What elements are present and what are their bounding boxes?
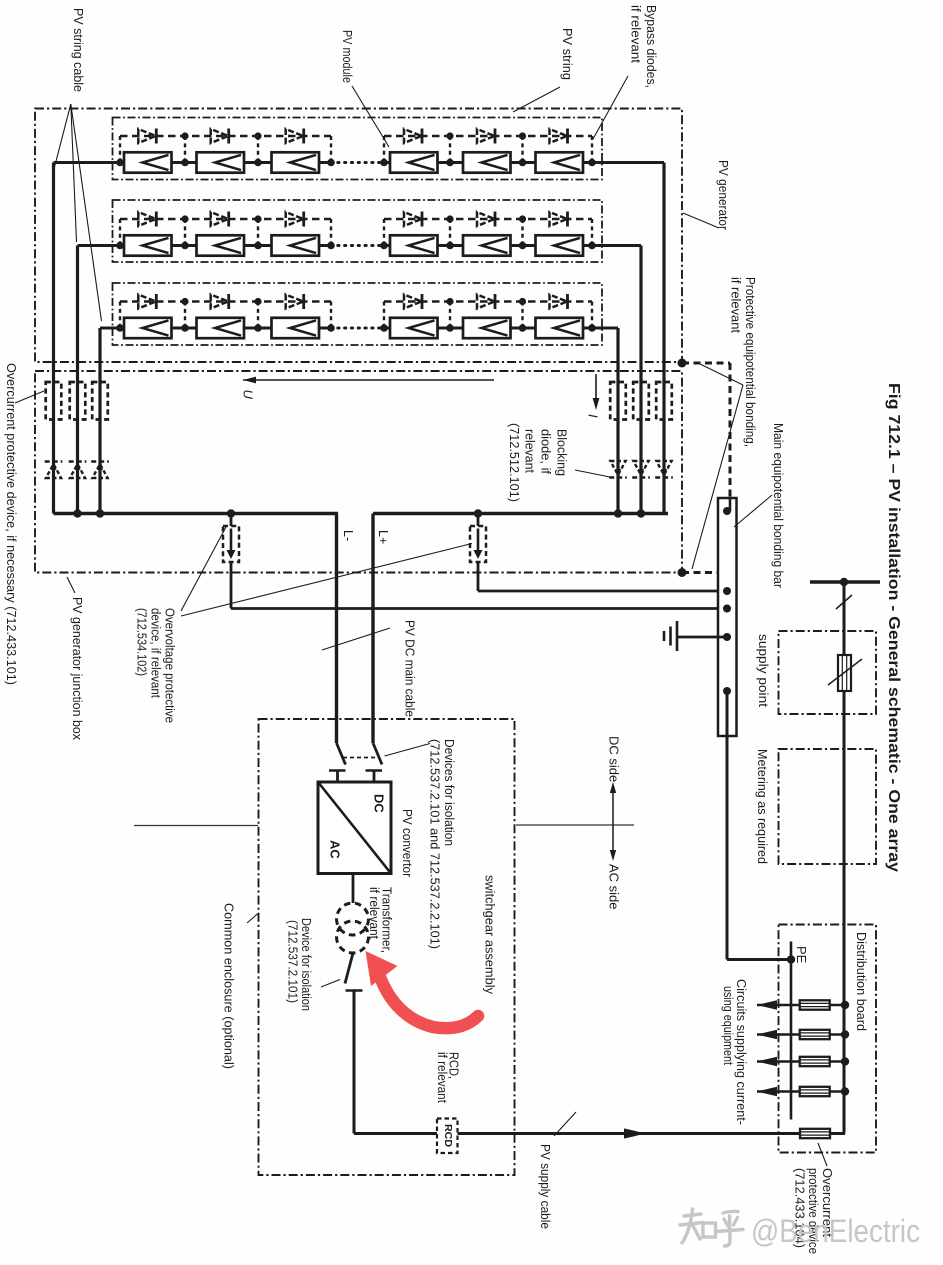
arrowhead up DC side	[610, 782, 616, 793]
blocking diode (up) at x=53.5	[45, 462, 63, 479]
wire: bypass tap at x=331 string 3	[330, 302, 332, 329]
node bypass junction (522.5,136.0)	[519, 132, 526, 139]
arrowhead branch 3	[757, 1057, 777, 1067]
ground electrode bar mid	[669, 627, 672, 646]
distribution board dash-dot box	[779, 925, 877, 1153]
leader/slash PV supply cable	[554, 1112, 576, 1136]
wire: junction box negative bus (left)	[54, 512, 339, 515]
wire: bypass tap at x=384 string 2	[383, 219, 385, 246]
node branch 2 on busbar	[841, 1030, 849, 1038]
wire: SPD1 down	[230, 562, 233, 609]
isolator contact bar device 1	[329, 769, 346, 772]
node bypass junction (185,301.5)	[181, 298, 188, 305]
wire: bypass tap at x=592 string 1	[591, 136, 593, 163]
dashed mechanical coupling of isolators	[343, 757, 378, 759]
bypass diode D2.5	[477, 212, 495, 227]
wire: bypass tap at x=258 string 2	[257, 219, 259, 246]
wire: bypass tap at x=450 string 3	[449, 302, 451, 329]
PV module string3.4	[390, 318, 438, 338]
node bypass junction (450,219.0)	[446, 215, 453, 222]
svg-text:Metering as required: Metering as required	[755, 749, 769, 864]
isolator blade device for isolation (AC)	[345, 953, 353, 984]
wire: string 2 series conductor (left group)	[120, 244, 331, 247]
wire: string 2 cable to right	[592, 244, 641, 247]
fuse-switch blade slash	[828, 659, 862, 685]
bypass diode D2.4	[404, 212, 422, 227]
wire: isolator 1 to convertor	[336, 771, 339, 783]
leader PV string cable 3	[71, 104, 102, 321]
svg-text:L-: L-	[341, 530, 355, 541]
node right bus (641.0,513.5)	[637, 509, 645, 517]
PV module string2.2	[197, 235, 245, 255]
supply point dash-dot box	[779, 631, 877, 714]
svg-text:PV generator junction box: PV generator junction box	[70, 597, 84, 741]
node PE	[787, 955, 795, 963]
wire: bypass tap at x=592 string 2	[591, 219, 593, 246]
wire: string 1 bypass bus dashed (left)	[120, 135, 331, 138]
wire: PE bar in distribution board	[790, 960, 793, 1120]
svg-text:diode, if: diode, if	[538, 429, 552, 475]
svg-text:Protective equipotential bondi: Protective equipotential bonding,	[743, 277, 757, 447]
node string 2 junction (185)	[181, 242, 189, 250]
svg-text:PV DC main cable: PV DC main cable	[402, 620, 416, 717]
PV module string1.3	[272, 152, 320, 172]
svg-text:I: I	[586, 414, 601, 418]
wire: bypass tap at x=384 string 1	[383, 136, 385, 163]
node string 1 junction (331)	[327, 159, 335, 167]
node bar terminal 591	[723, 587, 731, 595]
isolator slash on supply conductor	[836, 595, 852, 609]
wire: string 3 left cable down to junction box	[98, 328, 101, 514]
transformer T1 winding 2	[337, 921, 369, 953]
node bypass junction (185,136.0)	[181, 132, 188, 139]
svg-text:if relevant: if relevant	[628, 5, 642, 64]
overcurrent protective device (string fuse) F1	[46, 382, 62, 420]
PV module string2.3	[272, 235, 320, 255]
svg-text:switchgear assembly: switchgear assembly	[483, 875, 498, 994]
overcurrent protective device (string fuse) F4	[610, 382, 626, 420]
blocking diode (down) at x=641.0	[632, 461, 650, 478]
node string 3 junction (384)	[380, 324, 388, 332]
blocking diode (up) at x=100.0	[91, 462, 109, 479]
svg-text:Fig 712.1 – PV installation -: Fig 712.1 – PV installation - General sc…	[885, 383, 902, 872]
isolator blade device 1	[337, 743, 346, 765]
svg-text:PV string cable: PV string cable	[71, 8, 85, 92]
node string 2 junction (592)	[588, 242, 596, 250]
PV module string3.6	[536, 318, 584, 338]
svg-text:RCD: RCD	[442, 1124, 454, 1147]
leader device for isolation (AC)	[321, 980, 340, 988]
node string 2 junction (450)	[446, 242, 454, 250]
overcurrent device branch fuse 4	[800, 1087, 830, 1096]
svg-text:PV string: PV string	[560, 28, 574, 80]
bypass diode D3.6	[550, 294, 568, 309]
ground electrode bar short	[663, 631, 666, 641]
wire: earth to bonding bar	[677, 636, 727, 639]
wire: bypass tap at x=120 string 3	[119, 302, 121, 329]
svg-text:device, if relevant: device, if relevant	[148, 608, 162, 698]
node bar terminal 608	[723, 605, 731, 613]
node string 2 junction (522.5)	[519, 242, 527, 250]
wire: PE from bar down	[726, 691, 729, 960]
wire: PE to distribution board	[727, 958, 791, 961]
wire: bypass tap at x=522.5 string 3	[521, 302, 523, 329]
bypass diode D2.1	[138, 212, 156, 227]
leader overcurrent device right	[818, 1143, 827, 1166]
wire: PE stub up	[790, 942, 793, 960]
blocking diode (down) at x=618.0	[609, 461, 627, 478]
overcurrent device branch fuse 1	[800, 1000, 830, 1009]
overcurrent protective device (string fuse) F3	[92, 382, 108, 420]
node bar terminal top	[723, 507, 731, 515]
wire: final circuit branch 4	[757, 1090, 845, 1093]
overcurrent device branch fuse 2	[800, 1030, 830, 1039]
node right bus (618.0,513.5)	[614, 509, 622, 517]
svg-text:Common enclosure (optional): Common enclosure (optional)	[221, 903, 235, 1069]
svg-text:DC side: DC side	[607, 736, 622, 782]
wire: SPD2 to bonding bar	[478, 590, 727, 593]
ground electrode bar long	[676, 621, 679, 651]
wire: string 3 bypass bus dashed (left)	[120, 300, 331, 303]
flow arrowhead on PV supply cable	[624, 1128, 646, 1138]
wire: bypass tap at x=522.5 string 2	[521, 219, 523, 246]
wire: string 3 bypass bus dashed (right)	[384, 300, 592, 303]
svg-text:relevant: relevant	[522, 429, 536, 474]
wire: bypass tap at x=450 string 2	[449, 219, 451, 246]
node bypass junction (258,136.0)	[254, 132, 261, 139]
node string 1 junction (592)	[588, 159, 596, 167]
wire: junction box frame bond dashed	[682, 571, 727, 574]
wire: bus to SPD2	[477, 514, 480, 527]
wire: convertor output to transformer	[352, 874, 355, 904]
PV module string3.2	[197, 318, 245, 338]
node bypass junction (450,301.5)	[446, 298, 453, 305]
node bypass junction (258,301.5)	[254, 298, 261, 305]
wire: SPD1 to bonding bar	[231, 607, 727, 610]
wire: bypass tap at x=120 string 2	[119, 219, 121, 246]
wire: bypass tap at x=120 string 1	[119, 136, 121, 163]
leader protective bonding (bottom)	[692, 385, 743, 569]
node string 1 junction (384)	[380, 159, 388, 167]
svg-text:(712.537.2.101 and 712.537.2.2: (712.537.2.101 and 712.537.2.2.101)	[427, 739, 441, 949]
wire: string 2 series conductor (right group)	[384, 244, 592, 247]
wire: string 3 series conductor (left group)	[120, 327, 331, 330]
bypass diode D1.6	[550, 129, 568, 144]
bypass diode D1.1	[138, 129, 156, 144]
leader PV string	[513, 87, 560, 112]
arrowhead I (down)	[593, 398, 600, 410]
wire: supply point origin busbar	[810, 580, 880, 583]
wire: PV supply cable to distribution board	[354, 1132, 845, 1135]
overcurrent protective device (string fuse) F2	[70, 382, 86, 420]
wire: switchgear output down to RCD run	[353, 991, 356, 1134]
svg-text:using equipment: using equipment	[721, 986, 735, 1065]
node branch 4 on busbar	[841, 1087, 849, 1095]
node bypass junction (185,219.0)	[181, 215, 188, 222]
wire: bypass tap at x=185 string 2	[184, 219, 186, 246]
wire: string 3 dotted continuation	[331, 327, 384, 330]
isolator contact bar (AC device)	[346, 989, 363, 992]
node string 3 junction (258)	[254, 324, 262, 332]
overcurrent protective device (string fuse) F5	[633, 382, 649, 420]
node left bus (100.0,513.5)	[96, 509, 104, 517]
svg-text:Overcurrent protective device,: Overcurrent protective device, if necess…	[4, 363, 18, 685]
node SPD right tap	[474, 509, 482, 517]
PV module string3.5	[463, 318, 511, 338]
wire: bus to SPD1	[230, 514, 233, 527]
svg-text:PV module: PV module	[340, 30, 354, 83]
node branch 3 on busbar	[841, 1057, 849, 1065]
svg-text:(712.534.102): (712.534.102)	[134, 608, 148, 676]
leader bypass diodes	[593, 76, 628, 139]
arrowhead branch 1	[757, 1000, 777, 1010]
PV module string2.5	[463, 235, 511, 255]
main equipotential bonding bar	[718, 498, 737, 736]
arrow line: I current direction	[595, 374, 597, 407]
PV string 2 dash-dot box	[113, 200, 603, 262]
wire: string 1 dotted continuation	[331, 161, 384, 164]
bypass diode D1.2	[211, 129, 229, 144]
wire: string 1 right cable down to junction box	[662, 163, 665, 514]
wire: bypass tap at x=331 string 1	[330, 136, 332, 163]
leader blocking diode	[575, 470, 610, 477]
leader PV generator junction box	[67, 577, 75, 593]
PV convertor box U1	[318, 782, 391, 874]
svg-text:L+: L+	[376, 530, 390, 544]
node bar terminal 691 (PE)	[723, 687, 731, 695]
PV module string3.1	[124, 318, 172, 338]
PV module string2.6	[536, 235, 584, 255]
RCD dashed box	[437, 1119, 458, 1154]
PV module string1.6	[536, 152, 584, 172]
leader/slash PV DC main cable	[322, 628, 390, 650]
svg-text:(712.512.101): (712.512.101)	[507, 423, 521, 502]
svg-text:supply point: supply point	[756, 634, 770, 708]
bypass diode D3.3	[286, 294, 304, 309]
wire: protective equipotential bonding dashed (vertical)	[729, 363, 732, 498]
node string 3 junction (592)	[588, 324, 596, 332]
wire: string 1 cable to right	[592, 161, 664, 164]
watermark zhihu glyphs	[680, 1209, 743, 1246]
leader common enclosure	[247, 913, 259, 923]
node bypass junction (522.5,301.5)	[519, 298, 526, 305]
wire: supply main vertical conductor	[843, 582, 846, 1134]
node string 3 junction (185)	[181, 324, 189, 332]
node string 2 junction (120)	[116, 242, 124, 250]
leader protective bonding (top)	[700, 364, 743, 385]
wire: protective equipotential bonding dashed (top horizontal)	[682, 362, 730, 365]
PV string 1 dash-dot box	[113, 118, 603, 180]
bypass diode D2.3	[286, 212, 304, 227]
svg-text:Device for isolation: Device for isolation	[299, 918, 313, 1011]
node SPD left tap	[227, 509, 235, 517]
leader PV generator	[683, 213, 719, 228]
wire: string 3 cable to left	[100, 327, 120, 330]
overcurrent device branch fuse 3	[800, 1057, 830, 1066]
leader main bonding bar	[734, 495, 772, 527]
wire: string 1 left cable down to junction box	[52, 163, 55, 514]
wire: string 1 cable to left	[54, 161, 121, 164]
wire: bond entry inside bar	[729, 498, 732, 511]
svg-text:if relevant: if relevant	[435, 1052, 449, 1103]
svg-text:Main equipotential bonding bar: Main equipotential bonding bar	[771, 423, 785, 588]
red annotation arrow pointing at transformer/device for isolation	[380, 977, 478, 1028]
wire: string 1 bypass bus dashed (right)	[384, 135, 592, 138]
wire: string 3 right cable down to junction box	[616, 328, 619, 514]
node branch 1 on busbar	[841, 1001, 849, 1009]
svg-text:Blocking: Blocking	[554, 429, 568, 476]
svg-text:PV generator: PV generator	[716, 160, 730, 230]
svg-text:PV convertor: PV convertor	[400, 809, 414, 877]
node bar terminal 637	[723, 633, 731, 641]
svg-text:(712.537.2.101): (712.537.2.101)	[285, 920, 299, 1003]
wire: bypass tap at x=185 string 3	[184, 302, 186, 329]
bypass diode D1.4	[404, 129, 422, 144]
node bypass junction (450,136.0)	[446, 132, 453, 139]
svg-text:PE: PE	[794, 946, 809, 964]
wire: bypass tap at x=592 string 3	[591, 302, 593, 329]
wire: string 1 series conductor (left group)	[120, 161, 331, 164]
svg-text:Bypass diodes,: Bypass diodes,	[644, 5, 658, 88]
svg-text:if relevant: if relevant	[367, 887, 381, 939]
wire: string 2 right cable down to junction box	[639, 246, 642, 514]
node supply origin	[840, 578, 848, 586]
wire: string 2 left cable down to junction box	[76, 246, 79, 514]
wire: SPD2 down	[477, 562, 480, 591]
PV generator dash-dot enclosure	[35, 109, 682, 363]
wire: string 1 series conductor (right group)	[384, 161, 592, 164]
svg-text:if relevant: if relevant	[728, 277, 742, 334]
PV module string2.4	[390, 235, 438, 255]
isolator blade device 2	[373, 743, 382, 765]
node bonding bar terminal 572	[723, 569, 731, 577]
bypass diode D1.3	[286, 129, 304, 144]
arrowhead U (left)	[243, 377, 256, 384]
bypass diode D2.6	[550, 212, 568, 227]
node string 2 junction (258)	[254, 242, 262, 250]
PV module string1.1	[124, 152, 172, 172]
svg-text:PV supply cable: PV supply cable	[538, 1144, 552, 1229]
overcurrent protective device (string fuse) F6	[656, 382, 672, 420]
svg-text:Distribution board: Distribution board	[854, 932, 868, 1031]
node string 1 junction (450)	[446, 159, 454, 167]
wire: final circuit branch 3	[757, 1060, 845, 1063]
leader devices for isolation	[385, 744, 431, 757]
bypass diode D3.1	[138, 294, 156, 309]
arrowhead branch 4	[757, 1087, 777, 1097]
svg-text:DC: DC	[372, 794, 387, 813]
bypass diode D3.5	[477, 294, 495, 309]
svg-text:U: U	[241, 390, 256, 400]
PV module string2.1	[124, 235, 172, 255]
node string 3 junction (120)	[116, 324, 124, 332]
node string 2 junction (384)	[380, 242, 388, 250]
PV module string1.4	[390, 152, 438, 172]
leader overvoltage device 2	[181, 544, 472, 617]
thin DC-AC boundary line (right)	[516, 824, 634, 826]
wire: bypass tap at x=258 string 3	[257, 302, 259, 329]
bypass diode D2.2	[211, 212, 229, 227]
PV generator junction box dash-dot enclosure	[35, 371, 682, 573]
metering dash-dot box	[779, 749, 877, 864]
arrow line DC-AC sides	[612, 785, 614, 858]
overvoltage protective device SPD2 (right)	[470, 526, 486, 562]
overcurrent protective device (712.433.104) feed fuse	[800, 1129, 830, 1138]
PV module string3.3	[272, 318, 320, 338]
node left bus (77.5,513.5)	[73, 509, 81, 517]
node bypass junction (258,219.0)	[254, 215, 261, 222]
leader PV string cable 1	[54, 104, 71, 169]
svg-text:AC: AC	[328, 840, 343, 859]
wire: isolator 2 to convertor	[373, 771, 376, 783]
wire: L+ PV DC main cable	[371, 514, 374, 744]
node string 1 junction (185)	[181, 159, 189, 167]
leader overvoltage device 1	[181, 527, 226, 611]
node protective bonding bottom (junction box frame)	[678, 568, 687, 577]
node string 3 junction (522.5)	[519, 324, 527, 332]
wire: bypass tap at x=522.5 string 1	[521, 136, 523, 163]
leader overcurrent device left	[15, 391, 44, 403]
arrowhead branch 2	[757, 1030, 777, 1040]
wire: bypass tap at x=384 string 3	[383, 302, 385, 329]
wire: bypass tap at x=258 string 1	[257, 136, 259, 163]
svg-text:Circuits supplying current-: Circuits supplying current-	[734, 979, 748, 1125]
thin DC-AC boundary line (left)	[134, 825, 258, 827]
wire: string 3 series conductor (right group)	[384, 327, 592, 330]
node string 1 junction (258)	[254, 159, 262, 167]
wire: string 2 dotted continuation	[331, 244, 384, 247]
wire: bypass tap at x=331 string 2	[330, 219, 332, 246]
blocking diode (down) at x=664.0	[655, 461, 673, 478]
node string 1 junction (522.5)	[519, 159, 527, 167]
wire: bypass tap at x=450 string 1	[449, 136, 451, 163]
leader PV module	[352, 86, 389, 147]
PV string 3 dash-dot box	[113, 283, 603, 345]
wire: string 2 bypass bus dashed (left)	[120, 218, 331, 221]
wire: junction box positive bus (right)	[373, 512, 668, 515]
transformer T1 winding 1	[337, 903, 369, 935]
node bypass junction (522.5,219.0)	[519, 215, 526, 222]
arrow line: U voltage direction	[243, 379, 494, 381]
wire: L- PV DC main cable	[335, 514, 338, 744]
svg-text:Devices for isolation: Devices for isolation	[442, 739, 456, 846]
node string 2 junction (331)	[327, 242, 335, 250]
svg-text:AC side: AC side	[607, 864, 622, 910]
wire: bypass tap at x=185 string 1	[184, 136, 186, 163]
bypass diode D3.2	[211, 294, 229, 309]
wire: string 2 cable to left	[78, 244, 121, 247]
leader PV string cable 2	[71, 104, 77, 242]
fuse link in supply point	[838, 655, 851, 691]
isolator contact bar device 2	[366, 769, 383, 772]
wire: string 3 cable to right	[592, 327, 618, 330]
node string 1 junction (120)	[116, 159, 124, 167]
wire: final circuit branch 1	[757, 1004, 845, 1007]
bypass diode D3.4	[404, 294, 422, 309]
svg-text:@BenElectric: @BenElectric	[751, 1213, 920, 1249]
switchgear assembly / common enclosure dash-dot box	[259, 719, 515, 1175]
node string 3 junction (450)	[446, 324, 454, 332]
overvoltage protective device SPD1 (left)	[223, 526, 239, 562]
bypass diode D1.5	[477, 129, 495, 144]
node protective bonding top (PV generator frame)	[678, 359, 687, 368]
blocking diode (up) at x=77.5	[69, 462, 87, 479]
arrowhead down AC side	[610, 850, 616, 861]
PV module string1.5	[463, 152, 511, 172]
PV module string1.2	[197, 152, 245, 172]
svg-text:Overvoltage protective: Overvoltage protective	[162, 608, 176, 723]
wire: final circuit branch 2	[757, 1033, 845, 1036]
